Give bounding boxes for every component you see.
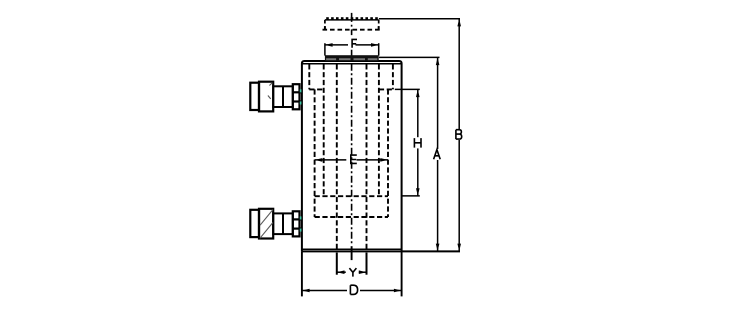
hidden line L2 bore left xyxy=(314,89,316,217)
dimension E xyxy=(315,158,388,162)
label A xyxy=(434,150,441,160)
hidden line L9 gland outer right xyxy=(392,64,394,89)
dimension H xyxy=(395,89,420,195)
label D xyxy=(350,285,357,294)
raised plunger (dashed, extended position) xyxy=(323,17,381,30)
dimension Y xyxy=(337,253,367,275)
hidden line L4 center hole left xyxy=(336,64,338,251)
gland step left xyxy=(309,88,323,90)
label E xyxy=(351,155,357,163)
hidden line L8 bore right xyxy=(387,89,389,217)
hidden line L7 plunger right xyxy=(378,64,380,196)
cylinder body outline xyxy=(302,61,402,251)
hidden line L1 gland outer left xyxy=(308,64,310,89)
dimension F xyxy=(325,43,379,56)
centerline xyxy=(351,13,353,260)
saddle (grooved plunger top, retracted) xyxy=(325,55,379,61)
label Y xyxy=(349,268,356,277)
base line xyxy=(302,250,460,252)
dimension B xyxy=(379,19,461,252)
hidden line L6 center hole right xyxy=(366,64,368,251)
piston bottom (hidden) xyxy=(315,216,388,218)
lower port marks xyxy=(300,216,302,231)
dimension D xyxy=(302,251,402,296)
upper coupler xyxy=(250,82,301,112)
lower coupler xyxy=(250,209,301,239)
gland step right xyxy=(379,88,393,90)
dimension A xyxy=(379,57,440,251)
piston top (hidden) xyxy=(315,195,388,197)
label B xyxy=(456,130,462,139)
upper port marks xyxy=(300,89,302,104)
label F xyxy=(352,39,357,47)
label H xyxy=(414,138,421,148)
hidden line L3 plunger left xyxy=(323,64,325,196)
